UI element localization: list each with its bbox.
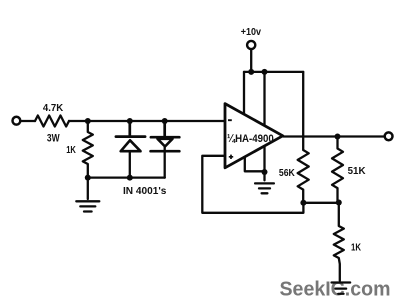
ground bottom right xyxy=(332,283,351,294)
op-amp U1 triangle xyxy=(225,104,283,168)
ground op-amp xyxy=(255,183,274,193)
wire input to R 4.7K xyxy=(21,120,35,122)
wire supply rail xyxy=(244,71,303,73)
wire supply to rail xyxy=(250,49,252,72)
wire node A to op-amp minus input xyxy=(69,120,225,122)
svg-text:1K: 1K xyxy=(351,241,361,253)
svg-text:56K: 56K xyxy=(279,168,295,179)
svg-text:1K: 1K xyxy=(66,145,76,156)
junction supply rail left xyxy=(248,69,254,75)
feedback wire to plus input xyxy=(202,156,303,213)
junction diode D2 top xyxy=(162,118,168,124)
wire output xyxy=(283,135,385,137)
ground left xyxy=(76,201,99,211)
resistor 1K right xyxy=(334,203,344,281)
svg-text:4.7K: 4.7K xyxy=(43,103,64,114)
svg-text:3W: 3W xyxy=(47,133,60,145)
input terminal J1 xyxy=(13,117,21,125)
resistor 1K vertical xyxy=(83,121,93,178)
svg-text:51K: 51K xyxy=(348,166,367,177)
junction diode D1 bottom xyxy=(127,175,133,181)
junction output to 51K xyxy=(335,134,341,140)
svg-text:IN 4001's: IN 4001's xyxy=(123,186,167,197)
node B junction bottom of 1K xyxy=(85,175,91,181)
wire bottom diode bus xyxy=(88,176,165,178)
diode D1 (cathode up) xyxy=(116,121,145,137)
resistor 4.7K 3W xyxy=(35,116,69,127)
wire node C xyxy=(303,202,338,204)
wire op-amp bottom pins to ground xyxy=(245,147,265,180)
node A junction xyxy=(85,118,91,124)
wire to ground left xyxy=(87,178,89,199)
op-amp plus input sign xyxy=(229,155,233,159)
svg-text:¼HA-4900: ¼HA-4900 xyxy=(227,133,274,145)
output terminal J2 xyxy=(385,132,393,140)
op-amp U1 supply terminal +10v xyxy=(247,41,255,49)
junction supply rail right xyxy=(262,69,268,75)
resistor 56K with wire from rail xyxy=(298,72,309,203)
junction 56K bottom xyxy=(300,200,306,206)
wire rail to op-amp V+ pin xyxy=(243,72,245,114)
junction node C xyxy=(336,200,342,206)
junction op-amp ground xyxy=(262,169,268,175)
op-amp minus input sign xyxy=(228,119,232,121)
junction diode D1 top xyxy=(127,118,133,124)
wire rail to op-amp pin 2 xyxy=(263,72,265,125)
svg-text:+10v: +10v xyxy=(241,27,262,38)
resistor 51K xyxy=(332,137,343,203)
diode D2 (cathode down) xyxy=(151,121,179,137)
